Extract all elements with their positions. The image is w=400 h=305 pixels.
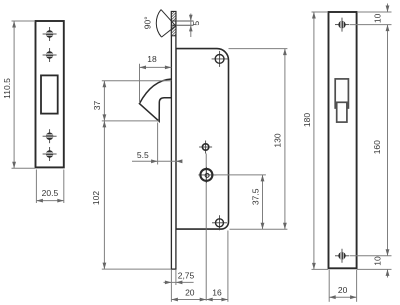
faceplate front outline bbox=[329, 12, 357, 268]
svg-text:110.5: 110.5 bbox=[2, 78, 12, 99]
dimension 110.5 bbox=[2, 21, 35, 168]
svg-text:180: 180 bbox=[302, 113, 312, 127]
dimension 5.5 bbox=[132, 123, 182, 165]
svg-text:102: 102 bbox=[91, 191, 101, 205]
svg-text:20: 20 bbox=[338, 285, 348, 295]
dimension 20 middle bbox=[171, 270, 206, 302]
svg-text:90°: 90° bbox=[143, 16, 153, 29]
svg-text:5: 5 bbox=[191, 21, 201, 26]
dimension 130 bbox=[229, 49, 288, 230]
dimension 2,75 bbox=[164, 270, 195, 285]
dimension 10 top bbox=[350, 4, 392, 25]
case screw boss top bbox=[212, 51, 228, 67]
svg-text:20: 20 bbox=[185, 287, 195, 297]
svg-text:37.5: 37.5 bbox=[250, 188, 260, 205]
svg-text:5.5: 5.5 bbox=[137, 150, 149, 160]
screw hole left 4 bbox=[43, 147, 57, 161]
svg-text:2,75: 2,75 bbox=[178, 271, 195, 281]
faceplate hatch top bbox=[171, 12, 176, 22]
dimension 20.5 bbox=[36, 170, 63, 204]
svg-text:18: 18 bbox=[147, 54, 157, 64]
screw hole right top bbox=[335, 18, 349, 32]
svg-text:20.5: 20.5 bbox=[42, 188, 59, 198]
svg-text:10: 10 bbox=[372, 256, 382, 266]
strike plate outline bbox=[36, 21, 64, 167]
faceplate hatch 2 bbox=[171, 25, 176, 36]
dimension 20 right bbox=[329, 270, 356, 302]
dimension 10 bottom bbox=[350, 256, 392, 278]
dimension 16 bbox=[206, 231, 228, 302]
strike plate cutout bbox=[41, 75, 58, 113]
cylinder hole bbox=[198, 167, 216, 183]
dimension 18 bbox=[140, 54, 172, 103]
centerline bbox=[205, 154, 207, 301]
slot edge lines bbox=[176, 20, 194, 22]
dimension 5 (slot) bbox=[189, 14, 201, 38]
lock case bbox=[176, 49, 229, 230]
case screw boss bottom bbox=[212, 215, 227, 230]
dimension 37 bbox=[92, 81, 172, 121]
svg-text:37: 37 bbox=[92, 101, 102, 111]
screw hole right bottom bbox=[335, 249, 349, 263]
dimension 37.5 bbox=[214, 175, 266, 229]
dimension 160 bbox=[372, 25, 389, 256]
dimension 180 bbox=[302, 12, 328, 269]
faceplate cutout narrow bbox=[337, 102, 347, 122]
screw hole left 3 bbox=[43, 129, 57, 143]
faceplate strip bbox=[171, 12, 176, 270]
svg-text:160: 160 bbox=[372, 140, 382, 154]
svg-text:130: 130 bbox=[273, 133, 283, 147]
small hole bbox=[199, 141, 212, 154]
dimension 102 bbox=[91, 121, 171, 269]
faceplate cutout wide bbox=[335, 79, 348, 108]
90 degree arc annotation bbox=[143, 10, 176, 37]
svg-text:16: 16 bbox=[212, 287, 222, 297]
svg-text:10: 10 bbox=[373, 13, 383, 23]
screw hole left 2 bbox=[43, 48, 57, 62]
screw hole left 1 bbox=[43, 27, 57, 41]
hook bolt bbox=[139, 79, 171, 121]
